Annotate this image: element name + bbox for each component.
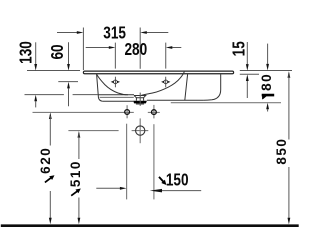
fixing hole right crosshair vertical: [153, 105, 155, 119]
extension line below right hole: [153, 124, 155, 199]
drain nub: [136, 103, 144, 104]
svg-text:150: 150: [166, 171, 189, 190]
drain circle: [136, 126, 145, 135]
basin rim: [83, 71, 233, 74]
fixing hole left: [125, 110, 130, 115]
basin bottom left segment: [102, 100, 133, 102]
svg-text:620: 620: [38, 147, 53, 174]
fixing hole right: [152, 110, 157, 115]
extension line left rim edge: [82, 28, 84, 71]
bowl outer wall line: [185, 74, 188, 100]
dimension 510: [68, 131, 83, 224]
adjustable marker 620: [44, 175, 54, 183]
drain flange: [133, 101, 147, 104]
svg-text:130: 130: [17, 41, 36, 64]
dimension 620: [38, 112, 53, 224]
dimension 150: [96, 171, 188, 190]
rim bottom extension right: [240, 73, 259, 75]
drain circle crosshair vertical: [139, 118, 141, 143]
extension line below left hole: [126, 124, 128, 200]
dimension 60: [49, 42, 70, 106]
svg-text:60: 60: [49, 44, 68, 59]
dimension 850: [274, 71, 291, 224]
dimension 280: [86, 40, 182, 59]
dimension 180: [259, 44, 274, 112]
drain circle centerline horizontal: [68, 130, 118, 132]
rim top extension right: [240, 70, 292, 72]
dimension 315: [57, 24, 168, 43]
reference line 180 bottom: [171, 102, 281, 104]
basin apron left edge: [97, 74, 103, 101]
adjustable marker 180: [262, 94, 275, 100]
extension line faucet right: [165, 43, 167, 69]
svg-text:80: 80: [259, 73, 274, 91]
fixing hole left crosshair vertical: [126, 105, 128, 118]
extension line faucet left: [114, 43, 116, 69]
adjustable marker 510: [71, 189, 81, 197]
centerline drain top: [139, 28, 141, 69]
fixing hole right crosshair horizontal: [148, 111, 160, 113]
svg-text:315: 315: [103, 24, 126, 43]
floor line: [1, 224, 299, 227]
drain centerline lower: [139, 93, 141, 106]
bowl bottom extension left: [25, 94, 64, 96]
basin bottom right segment: [147, 99, 204, 101]
dimension 150 right segment: [162, 190, 202, 192]
faucet hole cross left: [111, 77, 120, 88]
adjustable marker 150: [158, 176, 166, 185]
bowl inner outline: [97, 72, 185, 96]
basin apron right edge: [204, 74, 221, 100]
dimension 130: [17, 41, 37, 107]
rim top extension left: [27, 70, 80, 72]
drain trapezoid: [134, 96, 146, 101]
svg-text:15: 15: [230, 41, 249, 56]
dimension 15: [230, 41, 249, 98]
svg-text:850: 850: [274, 138, 289, 165]
faucet centerline extension left: [58, 81, 78, 83]
faucet hole cross right: [161, 77, 170, 88]
bowl back wall bottom line: [100, 96, 134, 98]
svg-text:280: 280: [124, 40, 147, 59]
fixing hole centerline: [33, 111, 134, 113]
drain circle crosshair horizontal: [132, 130, 149, 132]
svg-text:510: 510: [68, 160, 83, 187]
bowl bottom inner line: [98, 94, 134, 96]
